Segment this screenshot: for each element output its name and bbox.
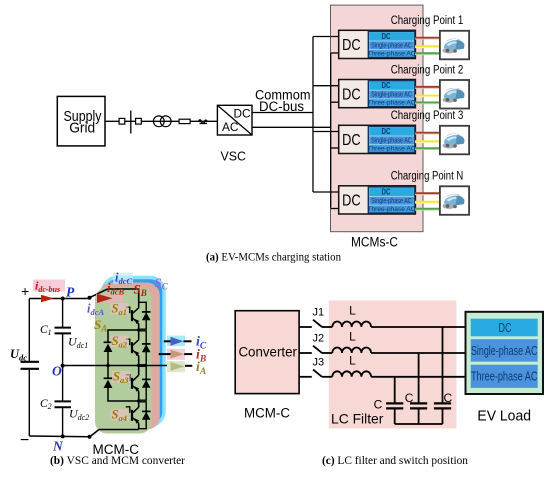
phase C layer (blue) bbox=[103, 278, 164, 426]
three-phase wire module 2 to EV bbox=[415, 103, 440, 105]
MCM module 3 bbox=[339, 125, 416, 153]
junction J12 bbox=[137, 328, 141, 332]
svg-text:L: L bbox=[349, 330, 356, 344]
svg-text:Single-phase AC: Single-phase AC bbox=[371, 90, 412, 99]
line impedance bbox=[179, 119, 190, 123]
O wire to output bbox=[63, 365, 171, 367]
wire L1 to load bbox=[371, 326, 465, 328]
capacitor C3 bbox=[442, 327, 444, 403]
svg-text:L: L bbox=[349, 353, 356, 367]
EV car 1 bbox=[443, 39, 465, 54]
wire VSC to DC bus + bbox=[252, 112, 313, 114]
iB arrow bbox=[171, 350, 185, 359]
single-phase wire module 2 to EV bbox=[415, 96, 440, 98]
DC wire module N to EV bbox=[415, 193, 440, 195]
DC wire module 1 to EV bbox=[415, 38, 440, 40]
label Sa3 bbox=[112, 371, 130, 383]
svg-text:C1: C1 bbox=[40, 324, 52, 337]
svg-text:DC: DC bbox=[382, 127, 391, 136]
svg-text:+: + bbox=[21, 283, 29, 299]
svg-text:Charging Point 2: Charging Point 2 bbox=[391, 64, 464, 76]
svg-text:MCMs-C: MCMs-C bbox=[351, 235, 398, 250]
svg-text:Udc: Udc bbox=[10, 347, 27, 363]
IGBT Sa4 with diode bbox=[126, 401, 151, 430]
current arrow i dcA bbox=[96, 294, 123, 303]
MCM module 1 bbox=[339, 30, 416, 58]
wire bus- to module 3 bbox=[331, 147, 339, 149]
svg-text:Three-phase AC: Three-phase AC bbox=[367, 51, 415, 58]
svg-text:J2: J2 bbox=[313, 333, 325, 345]
wire bus+ to module 3 bbox=[313, 131, 339, 133]
phase A layer (green) bbox=[95, 287, 152, 433]
node O bbox=[61, 364, 65, 368]
svg-text:LC Filter: LC Filter bbox=[331, 411, 384, 427]
EV car 3 bbox=[443, 134, 465, 149]
wire bus+ to module N bbox=[313, 191, 339, 193]
svg-text:L: L bbox=[349, 304, 356, 318]
Supply Grid source bbox=[57, 96, 105, 145]
svg-text:DC-bus: DC-bus bbox=[259, 99, 304, 114]
line break mark bbox=[199, 120, 208, 124]
mid rail with C1 C2 bbox=[62, 299, 64, 328]
Converter box bbox=[235, 311, 299, 394]
capacitor C2 bbox=[418, 353, 420, 403]
svg-text:−: − bbox=[20, 432, 29, 449]
wire converter phase 3 bbox=[299, 376, 312, 378]
clamp node O' bbox=[106, 364, 110, 368]
three-phase wire module 3 to EV bbox=[415, 149, 440, 151]
IGBT Sa2 with diode bbox=[126, 330, 151, 366]
MCM module 2 bbox=[339, 80, 416, 108]
cap common wire bbox=[395, 423, 443, 425]
svg-text:DC: DC bbox=[382, 187, 391, 196]
single-phase wire module N to EV bbox=[415, 202, 440, 204]
svg-text:Single-phase AC: Single-phase AC bbox=[471, 344, 538, 358]
svg-text:DC: DC bbox=[342, 132, 361, 149]
top dc wire bbox=[29, 298, 89, 300]
svg-text:Charging Point 1: Charging Point 1 bbox=[391, 15, 464, 27]
svg-text:Udc1: Udc1 bbox=[68, 335, 88, 351]
svg-text:DC: DC bbox=[382, 32, 391, 41]
EV box 1 bbox=[440, 31, 469, 60]
iC highlight bbox=[167, 336, 185, 347]
bottom blade switch bbox=[90, 430, 100, 438]
svg-text:O: O bbox=[52, 364, 62, 379]
wire L3 to load bbox=[371, 376, 465, 378]
svg-text:Grid: Grid bbox=[69, 121, 95, 137]
wire bus+ to module 1 bbox=[313, 36, 339, 38]
blade node bbox=[88, 296, 92, 300]
inductor L1 bbox=[332, 322, 371, 328]
clamp diode D6 bbox=[104, 377, 113, 379]
three-phase wire module 1 to EV bbox=[415, 54, 440, 56]
svg-text:Charging Point 3: Charging Point 3 bbox=[391, 110, 464, 122]
svg-text:DC: DC bbox=[342, 37, 361, 54]
EV box 3 bbox=[440, 126, 469, 155]
wire VSC to DC bus - bbox=[252, 126, 331, 128]
wire bus- to module 1 bbox=[331, 52, 339, 54]
svg-text:J3: J3 bbox=[313, 356, 325, 368]
svg-text:DC: DC bbox=[342, 86, 361, 103]
iC wire bbox=[164, 340, 172, 342]
capacitor Udc bbox=[21, 361, 40, 363]
switch J1 bbox=[313, 320, 322, 327]
junction J23 bbox=[137, 364, 141, 368]
wire to chain top bbox=[108, 289, 139, 302]
svg-text:AC: AC bbox=[222, 122, 239, 134]
label Sa2 bbox=[111, 336, 129, 348]
svg-text:C: C bbox=[444, 391, 453, 405]
capacitor C1 bbox=[55, 327, 72, 329]
i dc-bus label bbox=[33, 280, 65, 292]
svg-text:Three-phase AC: Three-phase AC bbox=[367, 206, 415, 213]
wire L2 to load bbox=[371, 352, 465, 354]
svg-text:MCM-C: MCM-C bbox=[244, 406, 290, 421]
svg-text:SC: SC bbox=[155, 275, 169, 292]
svg-text:(b) VSC and MCM converter: (b) VSC and MCM converter bbox=[50, 455, 185, 467]
wire converter phase 1 bbox=[299, 326, 312, 328]
MCM module N bbox=[339, 186, 416, 214]
label Sa4 bbox=[111, 409, 129, 421]
svg-text:DC: DC bbox=[342, 193, 361, 210]
svg-text:Converter: Converter bbox=[238, 345, 297, 360]
svg-text:DC: DC bbox=[234, 109, 251, 121]
top blade switch bbox=[90, 289, 108, 298]
svg-text:N: N bbox=[52, 439, 64, 454]
dc link + rail bbox=[28, 299, 30, 362]
single-phase wire module 1 to EV bbox=[415, 47, 440, 49]
wire converter phase 2 bbox=[299, 352, 312, 354]
iC arrow bbox=[171, 337, 184, 346]
EV car N bbox=[443, 194, 465, 209]
svg-text:C: C bbox=[374, 398, 383, 412]
iB highlight bbox=[167, 349, 185, 360]
node P bbox=[61, 297, 65, 301]
IGBT Sa3 with diode bbox=[126, 366, 151, 402]
LC filter region (pink) bbox=[329, 301, 457, 429]
EV car 2 bbox=[443, 88, 465, 103]
wire bus- to module 2 bbox=[331, 101, 339, 103]
svg-text:C2: C2 bbox=[40, 398, 52, 411]
svg-text:DC: DC bbox=[382, 81, 391, 90]
svg-text:Three-phase AC: Three-phase AC bbox=[471, 370, 538, 384]
DC bus negative rail bbox=[330, 53, 332, 208]
current arrow i dc-bus bbox=[41, 295, 54, 303]
breaker square 1 bbox=[119, 118, 125, 124]
svg-text:Single-phase AC: Single-phase AC bbox=[371, 41, 412, 50]
IGBT Sa1 with diode bbox=[126, 302, 151, 331]
DC bus positive rail bbox=[312, 37, 314, 193]
svg-text:Three-phase AC: Three-phase AC bbox=[367, 146, 415, 153]
wire grid to VSC bbox=[105, 120, 217, 122]
MCMs-C station enclosure (pink) bbox=[331, 5, 424, 232]
inductor L2 bbox=[332, 347, 371, 353]
EV Load box bbox=[466, 312, 544, 394]
junction J34 bbox=[137, 399, 141, 403]
inductor L3 bbox=[332, 371, 371, 377]
svg-text:Single-phase AC: Single-phase AC bbox=[371, 136, 412, 145]
capacitor C2 bbox=[55, 400, 72, 402]
single-phase wire module 3 to EV bbox=[415, 142, 440, 144]
svg-text:(c) LC filter and switch posit: (c) LC filter and switch position bbox=[322, 455, 468, 467]
wire bus- to module N bbox=[331, 208, 339, 210]
breaker square 2 bbox=[136, 118, 142, 124]
EV box 2 bbox=[440, 80, 469, 109]
clamp rail bottom bbox=[108, 388, 139, 401]
svg-text:EV Load: EV Load bbox=[477, 409, 531, 425]
clamp diode D5 bbox=[104, 341, 113, 343]
iB wire bbox=[159, 353, 172, 355]
phase B layer (pink) bbox=[99, 283, 160, 430]
bottom dc wire bbox=[29, 435, 89, 438]
node N bbox=[61, 434, 65, 438]
svg-text:Single-phase AC: Single-phase AC bbox=[371, 196, 412, 205]
svg-text:P: P bbox=[66, 285, 75, 300]
label Sa1 bbox=[111, 303, 129, 315]
svg-text:(a) EV-MCMs charging station: (a) EV-MCMs charging station bbox=[206, 252, 341, 264]
svg-text:Udc2: Udc2 bbox=[69, 407, 89, 423]
svg-text:VSC: VSC bbox=[221, 149, 247, 164]
transformer T1 bbox=[153, 116, 171, 127]
svg-text:C: C bbox=[405, 391, 414, 405]
iA arrow bbox=[171, 362, 186, 371]
svg-text:Charging Point N: Charging Point N bbox=[391, 171, 464, 183]
wire bus+ to module 2 bbox=[313, 85, 339, 87]
svg-text:DC: DC bbox=[499, 320, 512, 335]
iA highlight bbox=[167, 361, 185, 372]
DC wire module 2 to EV bbox=[415, 87, 440, 89]
clamp rail top bbox=[108, 330, 139, 342]
DC wire module 3 to EV bbox=[415, 133, 440, 135]
bus bar bbox=[130, 111, 132, 134]
svg-text:J1: J1 bbox=[313, 307, 325, 319]
VSC converter U1 bbox=[217, 105, 252, 135]
EV box N bbox=[440, 186, 469, 215]
switch J3 bbox=[313, 370, 322, 377]
three-phase wire module N to EV bbox=[415, 209, 440, 211]
switch J2 bbox=[313, 346, 322, 353]
capacitor C1 bbox=[394, 377, 396, 404]
svg-text:Three-phase AC: Three-phase AC bbox=[367, 100, 415, 107]
chain bottom wire bbox=[99, 429, 139, 431]
